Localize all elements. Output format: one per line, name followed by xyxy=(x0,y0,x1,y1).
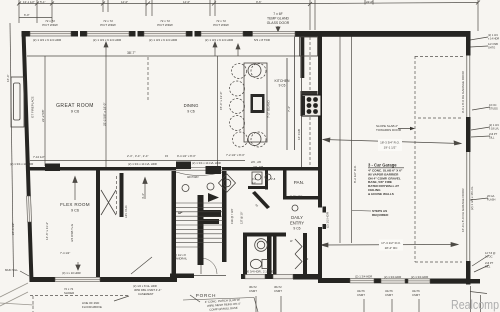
svg-text:FLOOR ABOVE: FLOOR ABOVE xyxy=(82,305,102,309)
svg-text:4'-5: 4'-5 xyxy=(252,177,257,181)
svg-text:(2) 1 3/4 x 9 1/4 HDR: (2) 1 3/4 x 9 1/4 HDR xyxy=(93,38,122,42)
svg-text:FLEX ROOM: FLEX ROOM xyxy=(60,202,90,207)
svg-text:24'-0": 24'-0" xyxy=(366,0,373,4)
svg-text:4'-4": 4'-4" xyxy=(141,193,145,199)
svg-text:1/2: 1/2 xyxy=(252,181,256,185)
svg-text:SILL: SILL xyxy=(485,265,491,269)
svg-text:& HOUSE WALLS: & HOUSE WALLS xyxy=(368,192,394,196)
svg-text:ENTRY: ENTRY xyxy=(290,221,304,226)
svg-text:Realcomp: Realcomp xyxy=(451,297,499,312)
svg-text:7'-2 1/2" x 8'-0": 7'-2 1/2" x 8'-0" xyxy=(226,153,245,157)
svg-text:SLIDER: SLIDER xyxy=(64,291,74,295)
svg-text:CSMT: CSMT xyxy=(412,293,420,297)
svg-text:MUD SILL: MUD SILL xyxy=(5,268,18,272)
svg-text:14'-0": 14'-0" xyxy=(121,0,128,4)
svg-text:(2) 1 3/4 HDR: (2) 1 3/4 HDR xyxy=(355,275,372,279)
svg-text:(2) 1 3/4 x 14 LVL HDR: (2) 1 3/4 x 14 LVL HDR xyxy=(128,162,157,166)
svg-text:2'-8: 2'-8 xyxy=(271,177,276,181)
svg-text:9 C6: 9 C6 xyxy=(71,109,80,114)
svg-text:SHTG: SHTG xyxy=(488,46,495,50)
svg-text:(2) 1 3/4 x 9 1/4 HDR: (2) 1 3/4 x 9 1/4 HDR xyxy=(149,38,178,42)
svg-text:x 14 HDR: x 14 HDR xyxy=(488,37,499,41)
svg-text:2'-4" , 3'-4" , 2'-4": 2'-4" , 3'-4" , 2'-4" xyxy=(127,154,148,158)
svg-text:CSMT: CSMT xyxy=(274,289,282,293)
svg-text:SHELVES: SHELVES xyxy=(290,195,303,199)
svg-text:8'-2 1/2" R.O.: 8'-2 1/2" R.O. xyxy=(353,165,357,183)
svg-text:PAN.: PAN. xyxy=(294,180,304,185)
svg-text:16'-4": 16'-4" xyxy=(6,74,10,82)
svg-text:15'-4" x 13'-0": 15'-4" x 13'-0" xyxy=(219,92,223,110)
svg-text:(2) 1 3/4 x 9 1/4 HDR: (2) 1 3/4 x 9 1/4 HDR xyxy=(205,38,234,42)
svg-text:5'-1": 5'-1" xyxy=(40,0,46,4)
svg-text:(2) 1 3/4 x 9 1/4 HDR: (2) 1 3/4 x 9 1/4 HDR xyxy=(33,38,62,42)
svg-text:CSMT: CSMT xyxy=(249,289,257,293)
svg-text:(3) 1 x 10 HDR: (3) 1 x 10 HDR xyxy=(62,271,81,275)
svg-text:PICT WDW: PICT WDW xyxy=(213,23,229,27)
svg-text:12 TJI @: 12 TJI @ xyxy=(485,251,496,255)
svg-text:9'-4 1/2" x 8'-0": 9'-4 1/2" x 8'-0" xyxy=(177,154,196,158)
svg-text:9'-0 x 8'-0 OH GARAGE DOOR: 9'-0 x 8'-0 OH GARAGE DOOR xyxy=(461,70,465,113)
svg-text:9 C6: 9 C6 xyxy=(71,209,79,213)
svg-text:DAILY: DAILY xyxy=(291,215,303,220)
svg-text:9'-6": 9'-6" xyxy=(256,0,262,4)
svg-text:13R @ 7 3/4": 13R @ 7 3/4" xyxy=(230,208,234,224)
svg-text:38'-7": 38'-7" xyxy=(127,51,136,55)
svg-text:14'-6" x 11'-2": 14'-6" x 11'-2" xyxy=(45,222,49,240)
svg-text:7'-2" ISLAND: 7'-2" ISLAND xyxy=(267,100,271,118)
svg-text:2x6 PT: 2x6 PT xyxy=(485,261,494,265)
svg-text:STUDS: STUDS xyxy=(489,107,498,111)
svg-text:16' CAB: 16' CAB xyxy=(297,129,301,140)
svg-text:18'-3 3/4" R.O.: 18'-3 3/4" R.O. xyxy=(380,141,400,145)
svg-text:CASEMENT: CASEMENT xyxy=(138,292,154,296)
svg-text:PICT WDW: PICT WDW xyxy=(42,23,58,27)
svg-text:3/8 , 5/8: 3/8 , 5/8 xyxy=(253,165,264,169)
svg-text:16 OC: 16 OC xyxy=(485,255,493,259)
svg-text:(2) 1 3/4 HDR: (2) 1 3/4 HDR xyxy=(384,275,401,279)
svg-text:HANDRAIL: HANDRAIL xyxy=(174,257,188,261)
svg-text:22'-2 5/8": 22'-2 5/8" xyxy=(41,109,45,122)
svg-text:2'-0: 2'-0 xyxy=(304,257,309,261)
svg-text:24'-6 1/2": 24'-6 1/2" xyxy=(11,222,15,235)
svg-text:15: 15 xyxy=(165,154,169,158)
svg-text:(2) 1 3/4: (2) 1 3/4 xyxy=(488,33,498,37)
svg-text:(2) 1 3/4 x 14 LVL HDR: (2) 1 3/4 x 14 LVL HDR xyxy=(192,161,221,165)
svg-text:CSMT: CSMT xyxy=(385,293,393,297)
svg-text:1/2 OSB: 1/2 OSB xyxy=(488,42,498,46)
svg-text:(2) 1 3/4 HDR: (2) 1 3/4 HDR xyxy=(411,275,428,279)
svg-text:7 x 6F: 7 x 6F xyxy=(273,12,282,16)
svg-text:16 OC: 16 OC xyxy=(489,103,497,107)
svg-text:PICT WDW: PICT WDW xyxy=(100,23,116,27)
svg-text:PICT WDW: PICT WDW xyxy=(157,23,173,27)
svg-text:PORCH: PORCH xyxy=(196,293,217,298)
svg-text:SILL: SILL xyxy=(489,136,495,140)
svg-text:KITCHEN: KITCHEN xyxy=(275,79,290,83)
svg-text:2x6 PT: 2x6 PT xyxy=(489,132,498,136)
svg-text:TEMP GLAND: TEMP GLAND xyxy=(267,17,290,21)
svg-text:(2) 1/2 x 8: (2) 1/2 x 8 xyxy=(174,253,186,257)
svg-text:9 C6: 9 C6 xyxy=(293,227,300,231)
svg-text:ARCH ABV: ARCH ABV xyxy=(187,176,199,179)
svg-text:18'-4" RC: 18'-4" RC xyxy=(385,246,399,250)
svg-text:30 3/4 HDR , 2 1/2 HDR: 30 3/4 HDR , 2 1/2 HDR xyxy=(246,270,276,274)
svg-text:(2) 1 3/4 x 18 LVL: (2) 1 3/4 x 18 LVL xyxy=(470,186,474,210)
svg-text:LIN. CLO.: LIN. CLO. xyxy=(124,204,128,218)
svg-text:3 - Car Garage: 3 - Car Garage xyxy=(368,163,397,168)
svg-text:x 18 LVL: x 18 LVL xyxy=(489,127,500,131)
svg-text:FLASH: FLASH xyxy=(487,198,495,202)
svg-text:(2) 1/2 HDR: (2) 1/2 HDR xyxy=(326,211,330,228)
svg-text:26 GA: 26 GA xyxy=(487,194,495,198)
svg-text:14'-0": 14'-0" xyxy=(183,0,190,4)
svg-text:GLASS DOOR: GLASS DOOR xyxy=(267,21,290,25)
svg-text:9 C6: 9 C6 xyxy=(279,84,286,88)
svg-text:13'-1 1/2": 13'-1 1/2" xyxy=(23,0,35,4)
svg-text:12T @ 10": 12T @ 10" xyxy=(240,212,244,224)
svg-text:7'-4": 7'-4" xyxy=(287,106,291,112)
svg-text:3/4 OSB T+G: 3/4 OSB T+G xyxy=(70,223,74,242)
svg-text:16'-0 x 8'-0 OH GARAGE DOOR: 16'-0 x 8'-0 OH GARAGE DOOR xyxy=(461,188,465,232)
svg-text:7'-10 1/2": 7'-10 1/2" xyxy=(33,155,45,159)
svg-text:(2) 1 3/4 x 14 HDR: (2) 1 3/4 x 14 HDR xyxy=(10,162,33,166)
svg-text:GT FIREPLACE: GT FIREPLACE xyxy=(31,96,35,118)
svg-text:2/0 , 2/0: 2/0 , 2/0 xyxy=(251,160,262,164)
svg-text:REQUIRED: REQUIRED xyxy=(372,213,389,217)
svg-text:6'-0": 6'-0" xyxy=(24,13,30,17)
svg-text:19'-1 1/2": 19'-1 1/2" xyxy=(384,146,397,150)
svg-text:(2) 1 3/4: (2) 1 3/4 xyxy=(489,123,499,127)
svg-text:5/3 x 8 TDR: 5/3 x 8 TDR xyxy=(254,38,271,42)
svg-text:CSMT: CSMT xyxy=(357,293,365,297)
svg-text:DINING: DINING xyxy=(184,103,199,108)
svg-text:17'-3 1/2" R.O.: 17'-3 1/2" R.O. xyxy=(381,241,401,245)
svg-text:7'-4 1/2": 7'-4 1/2" xyxy=(60,251,70,255)
svg-text:9 C6: 9 C6 xyxy=(187,110,195,114)
svg-text:25'-2 5/8" x 19'-0": 25'-2 5/8" x 19'-0" xyxy=(103,103,107,126)
svg-text:TOWARDS DOOR: TOWARDS DOOR xyxy=(376,128,402,132)
